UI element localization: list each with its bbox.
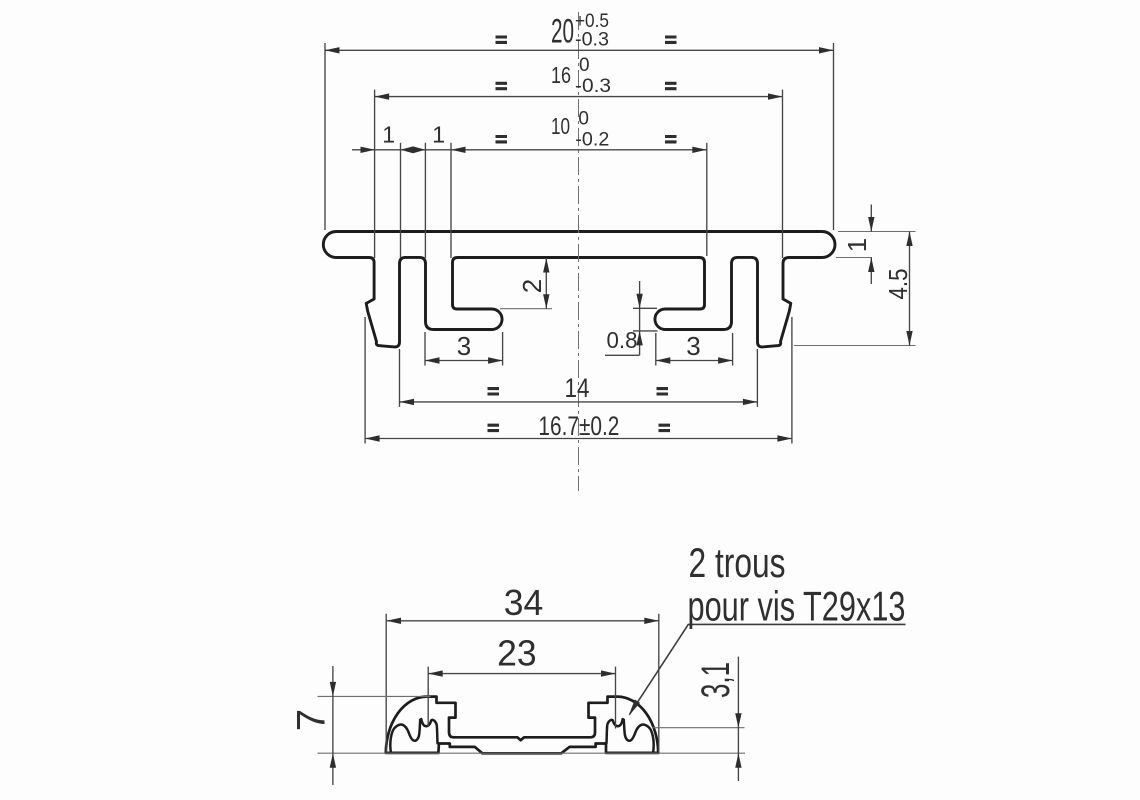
svg-text:10: 10 (551, 113, 570, 139)
centerline (vertical chain line) (578, 12, 580, 491)
svg-text:20: 20 (551, 13, 574, 51)
svg-text:3,1: 3,1 (694, 662, 738, 698)
svg-text:16: 16 (551, 62, 571, 88)
svg-text:-0.2: -0.2 (575, 130, 609, 151)
svg-text:4.5: 4.5 (883, 269, 913, 300)
svg-text:34: 34 (504, 582, 544, 623)
svg-text:1: 1 (382, 122, 395, 148)
svg-text:3: 3 (457, 331, 471, 361)
svg-text:-0.3: -0.3 (575, 76, 611, 97)
svg-text:2 trous: 2 trous (689, 539, 786, 586)
svg-text:-0.3: -0.3 (575, 30, 609, 51)
svg-text:2: 2 (517, 279, 547, 293)
svg-text:23: 23 (497, 633, 537, 674)
svg-text:7: 7 (290, 709, 334, 731)
svg-text:1: 1 (432, 122, 445, 148)
svg-text:3: 3 (686, 331, 700, 361)
svg-text:0: 0 (578, 108, 589, 129)
svg-text:0: 0 (579, 55, 590, 76)
right screw boss (omega) (607, 719, 654, 753)
svg-text:1: 1 (842, 238, 872, 252)
left screw boss (omega) (390, 719, 437, 753)
svg-text:14: 14 (565, 373, 590, 403)
base profile outline (386, 697, 658, 754)
profile outline (cap) (323, 231, 835, 346)
svg-text:pour vis T29x13: pour vis T29x13 (688, 583, 906, 630)
svg-text:0.8: 0.8 (607, 327, 638, 353)
svg-text:16.7±0.2: 16.7±0.2 (538, 411, 619, 441)
